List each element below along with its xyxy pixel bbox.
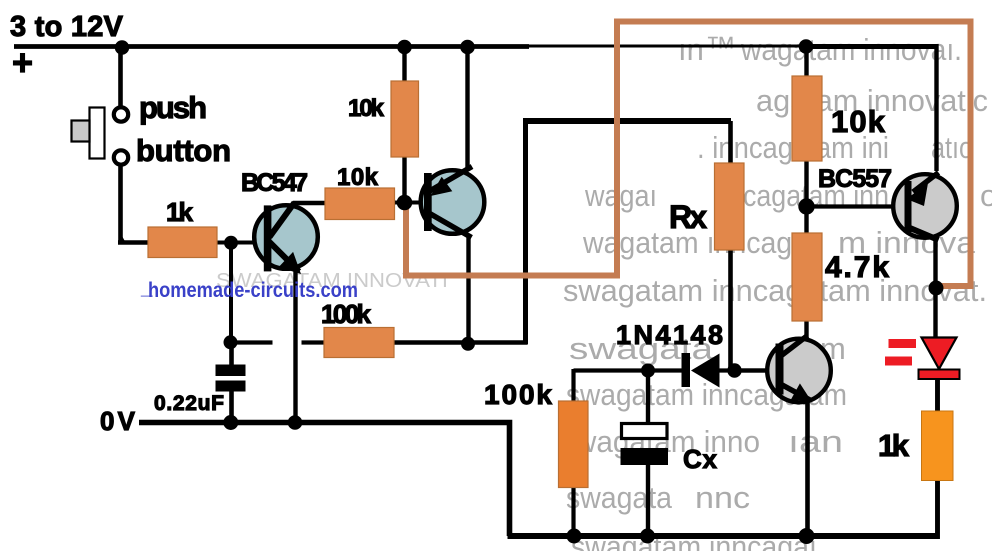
svg-text:+: + — [12, 42, 33, 83]
svg-text:swagatam inncagaı: swagatam inncagaı — [571, 529, 817, 551]
svg-text:BC557: BC557 — [818, 165, 892, 193]
svg-text:homemade-circuits.com: homemade-circuits.com — [148, 279, 358, 302]
svg-text:Rx: Rx — [669, 199, 707, 235]
svg-text:wagaı: wagaı — [584, 178, 657, 213]
svg-text:_: _ — [140, 276, 153, 299]
svg-text:nnc: nnc — [695, 480, 750, 515]
svg-text:push: push — [139, 90, 207, 125]
svg-text:wagatam innovaı.: wagatam innovaı. — [740, 32, 962, 67]
svg-text:3 to 12V: 3 to 12V — [10, 11, 124, 43]
svg-text:100k: 100k — [484, 379, 552, 410]
svg-text:ıan: ıan — [788, 424, 843, 459]
svg-text:Cx: Cx — [683, 444, 718, 474]
svg-text:swagatam inncagatam innovat.: swagatam inncagatam innovat. — [563, 273, 987, 308]
svg-text:1k: 1k — [878, 428, 910, 463]
svg-text:ın: ın — [678, 32, 704, 67]
svg-text:10k: 10k — [337, 164, 379, 191]
svg-text:button: button — [136, 133, 231, 168]
svg-text:0.22uF: 0.22uF — [154, 392, 224, 415]
svg-text:0V: 0V — [100, 406, 136, 436]
svg-text:10k: 10k — [348, 95, 385, 122]
svg-text:o: o — [980, 178, 992, 213]
svg-text:BC547: BC547 — [241, 169, 308, 197]
svg-text:4.7k: 4.7k — [825, 251, 889, 284]
svg-text:100k: 100k — [321, 299, 372, 329]
svg-text:1k: 1k — [166, 197, 194, 227]
svg-text:10k: 10k — [831, 104, 886, 139]
